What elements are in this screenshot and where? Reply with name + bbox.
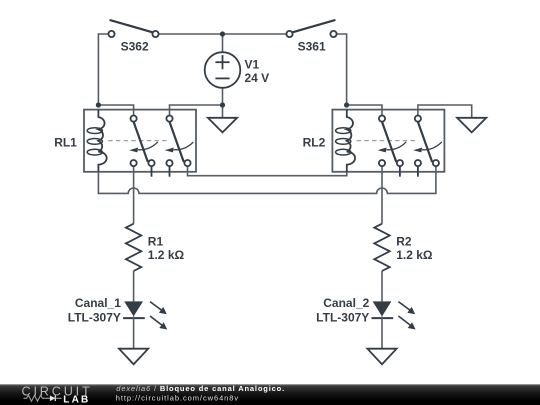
wire [156, 33, 223, 35]
wire [223, 33, 290, 35]
svg-text:LTL-307Y: LTL-307Y [316, 310, 369, 324]
svg-text:R1: R1 [148, 235, 164, 249]
switch S361 [286, 20, 336, 53]
relay RL2 [303, 110, 445, 177]
node RL2 coil top [344, 102, 349, 107]
wire [418, 105, 472, 119]
LED Canal_2 LTL-307Y [316, 296, 415, 349]
wire R1 column top [133, 166, 135, 224]
svg-text:S361: S361 [298, 39, 326, 53]
svg-text:1.2 kΩ: 1.2 kΩ [148, 248, 185, 262]
wire [347, 105, 382, 119]
wire [222, 105, 224, 118]
svg-text:LTL-307Y: LTL-307Y [68, 310, 121, 324]
svg-text:Canal_2: Canal_2 [323, 296, 369, 310]
wire rail B with hops [98, 166, 436, 193]
relay RL1 [54, 110, 196, 177]
svg-text:LAB: LAB [63, 394, 90, 405]
footer bar [0, 384, 540, 405]
wire [98, 105, 133, 119]
CircuitLab logo [22, 385, 93, 405]
node V1 bottom junction [220, 102, 225, 107]
svg-text:1.2 kΩ: 1.2 kΩ [396, 248, 433, 262]
wire [222, 34, 224, 52]
node RL1 coil top [96, 102, 101, 107]
svg-text:RL1: RL1 [54, 136, 77, 150]
svg-text:24 V: 24 V [245, 71, 270, 85]
ground (below V1) [208, 118, 237, 133]
wire [170, 105, 223, 119]
resistor R1 1.2 kOhm [126, 224, 185, 302]
voltage source V1 24 V [205, 52, 269, 88]
ground (below LED1) [119, 349, 148, 365]
switch S362 [108, 20, 158, 53]
LED Canal_1 LTL-307Y [68, 296, 167, 349]
ground (right of RL2) [457, 118, 486, 133]
svg-text:dexelia6 / Bloqueo de canal An: dexelia6 / Bloqueo de canal Analogico. [116, 384, 285, 393]
ground (below LED2) [367, 349, 396, 365]
svg-text:http://circuitlab.com/cw64n8v: http://circuitlab.com/cw64n8v [116, 394, 239, 403]
wire [334, 34, 347, 105]
svg-text:V1: V1 [245, 57, 260, 71]
resistor R2 1.2 kOhm [374, 224, 433, 302]
wire rail A [188, 166, 347, 176]
wire [222, 88, 224, 105]
svg-text:RL2: RL2 [303, 136, 326, 150]
wire R2 column top [381, 166, 383, 224]
node V1 top junction [220, 31, 225, 36]
svg-text:R2: R2 [396, 235, 412, 249]
svg-text:Canal_1: Canal_1 [75, 296, 121, 310]
svg-text:S362: S362 [121, 39, 149, 53]
wire [98, 34, 111, 105]
